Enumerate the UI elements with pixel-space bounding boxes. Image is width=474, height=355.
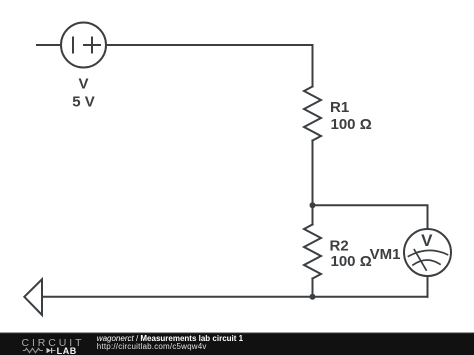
plus sign: [84, 44, 100, 46]
resistor R1 zigzag: [304, 87, 321, 141]
svg-text:LAB: LAB: [57, 346, 77, 355]
svg-text:100 Ω: 100 Ω: [331, 116, 372, 133]
logo resistor zigzag: [23, 348, 43, 352]
resistor R2 zigzag: [304, 225, 321, 279]
voltmeter VM1 circle: [404, 229, 451, 276]
svg-text:V: V: [421, 231, 433, 250]
footer bar: [0, 333, 474, 355]
voltmeter needle: [414, 250, 426, 271]
minus terminal bar: [72, 38, 74, 53]
wire node to voltmeter top: [313, 205, 428, 229]
wire top from source to corner: [106, 45, 313, 87]
wire left stub of source: [37, 44, 61, 46]
bottom wire: [42, 296, 428, 298]
wire node down to R2: [312, 205, 314, 224]
voltmeter scale arc large: [409, 250, 448, 256]
logo diode: [47, 348, 52, 353]
voltmeter scale arc small: [413, 260, 440, 265]
svg-text:R2: R2: [330, 237, 349, 254]
svg-text:http://circuitlab.com/c5wqw4v: http://circuitlab.com/c5wqw4v: [97, 342, 207, 351]
voltmeter bottom wire: [427, 276, 429, 297]
wire R2 to bottom node: [312, 279, 314, 297]
svg-text:V: V: [78, 75, 88, 92]
voltage source V1 circle: [61, 23, 106, 68]
svg-text:VM1: VM1: [370, 246, 401, 263]
junction node bottom: [310, 294, 316, 300]
svg-text:5 V: 5 V: [72, 94, 95, 111]
wire R1 to node: [312, 141, 314, 206]
ground arrow triangle: [24, 279, 42, 315]
svg-text:100 Ω: 100 Ω: [331, 253, 372, 270]
svg-text:R1: R1: [330, 99, 349, 116]
junction node top: [310, 202, 316, 208]
